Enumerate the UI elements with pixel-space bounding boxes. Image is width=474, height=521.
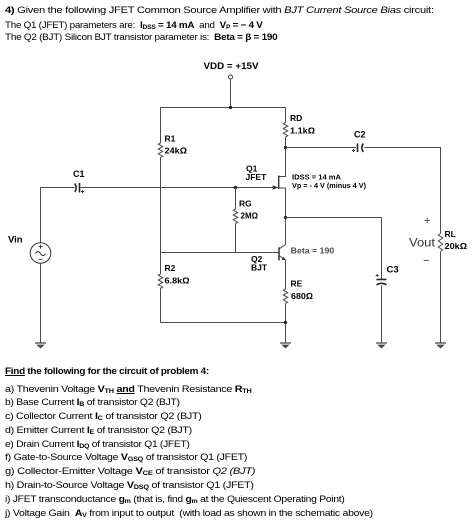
wire RD bottom to drain node <box>285 137 287 148</box>
source Vin minus mark <box>39 258 43 260</box>
transistor Q1 JFET: channel bar <box>278 176 280 190</box>
node RG-gate junction <box>234 186 237 189</box>
wire drain node to C2 <box>286 147 357 149</box>
problem statement line 2 <box>5 19 263 34</box>
source Vin plus mark <box>39 245 43 249</box>
svg-text:RE: RE <box>291 279 303 289</box>
svg-text:RG: RG <box>239 199 252 209</box>
wire top rail <box>161 107 286 109</box>
capacitor C1 <box>75 183 80 193</box>
wire R2 bottom lead <box>160 288 162 322</box>
svg-text:680Ω: 680Ω <box>291 291 313 301</box>
source Vin sine <box>36 252 46 256</box>
wire Vin bottom lead <box>40 263 42 343</box>
node source junction <box>284 216 287 219</box>
wire RD top lead <box>285 108 287 123</box>
source Vin circle <box>30 243 51 264</box>
transistor Q1 JFET: drain lead <box>279 148 286 177</box>
wire R2 top lead <box>160 253 162 275</box>
transistor Q1 JFET: gate arrowhead <box>273 185 279 189</box>
svg-text:C3: C3 <box>387 265 399 276</box>
svg-text:+: + <box>424 215 430 227</box>
transistor Q2 BJT: collector lead <box>279 218 285 249</box>
svg-text:Vin: Vin <box>8 235 23 246</box>
transistor Q1 JFET: source lead <box>279 188 286 218</box>
wire source node to C3 corner <box>286 217 382 219</box>
wire base rail <box>161 252 280 254</box>
wire C3 top lead <box>381 218 383 280</box>
C1 plus mark <box>81 190 84 193</box>
wire C2 to RL corner <box>365 147 441 150</box>
svg-text:20kΩ: 20kΩ <box>445 241 468 251</box>
question list <box>5 384 331 521</box>
problem statement line 3 <box>5 31 277 43</box>
svg-text:Vout: Vout <box>409 238 436 250</box>
svg-text:1.1kΩ: 1.1kΩ <box>290 126 315 136</box>
svg-text:IDSS = 14 mA: IDSS = 14 mA <box>292 175 341 182</box>
VDD terminal <box>229 75 233 79</box>
svg-text:6.8kΩ: 6.8kΩ <box>165 276 190 286</box>
C3 plus mark <box>376 274 379 277</box>
wire RL top lead <box>440 148 442 234</box>
C2 plus mark <box>352 149 355 152</box>
wire RL bottom lead <box>440 252 442 344</box>
problem statement line 1 <box>5 4 434 16</box>
svg-text:JFET: JFET <box>246 172 268 182</box>
node drain junction <box>284 146 287 149</box>
transistor Q2 BJT: emitter lead <box>279 256 285 289</box>
svg-text:−: − <box>423 255 429 267</box>
wire RG bottom lead <box>235 223 237 252</box>
svg-text:R2: R2 <box>165 263 176 273</box>
ground RL <box>435 343 446 348</box>
resistor RG <box>233 209 237 223</box>
wire ground stub <box>285 323 287 344</box>
svg-text:2MΩ: 2MΩ <box>241 211 259 221</box>
wire VDD stub <box>230 79 232 108</box>
svg-text:RD: RD <box>290 113 302 123</box>
wire Vin top lead <box>40 188 42 243</box>
svg-text:Vp = - 4 V (minus 4 V): Vp = - 4 V (minus 4 V) <box>292 183 366 190</box>
wire RE bottom lead <box>285 303 287 322</box>
svg-text:Beta = 190: Beta = 190 <box>291 247 335 256</box>
svg-text:VDD = +15V: VDD = +15V <box>204 61 260 72</box>
wire bottom rail <box>161 322 286 324</box>
resistor R1 <box>158 143 162 157</box>
ground RE <box>280 343 291 348</box>
wire C3 bottom lead <box>381 286 383 344</box>
svg-text:C2: C2 <box>354 130 366 140</box>
find heading <box>5 365 209 377</box>
wire R1 bottom to node B <box>160 157 162 252</box>
svg-text:R1: R1 <box>165 134 176 144</box>
svg-text:RL: RL <box>445 229 456 239</box>
svg-text:BJT: BJT <box>251 263 268 273</box>
transistor Q2 BJT: base bar <box>278 247 280 260</box>
resistor RE <box>283 289 287 303</box>
capacitor C2 <box>358 144 364 153</box>
svg-text:C1: C1 <box>73 169 85 179</box>
wire R1 top lead <box>160 108 162 144</box>
ground C3 <box>376 343 387 348</box>
ground Vin <box>35 343 46 348</box>
wire RG top lead <box>235 188 237 210</box>
resistor RD <box>283 123 287 137</box>
svg-text:24kΩ: 24kΩ <box>165 146 188 156</box>
wire gate rail from C1 to gate <box>81 187 279 189</box>
resistor R2 <box>158 274 162 288</box>
wire C1 left lead <box>41 187 75 189</box>
resistor RL <box>438 234 442 252</box>
transistor Q2 BJT: emitter arrowhead <box>281 257 285 261</box>
capacitor C3 <box>377 280 387 285</box>
node bottom rail junction <box>284 321 287 324</box>
node VDD-rail junction <box>229 106 232 109</box>
